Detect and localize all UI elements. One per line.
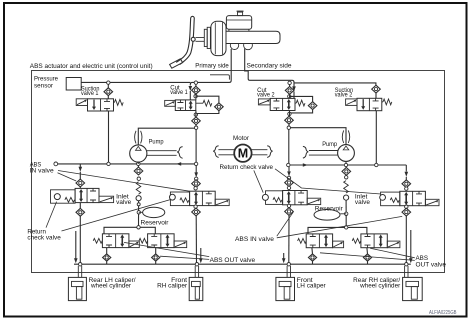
cut valve 2 spring [295,102,296,104]
inlet valve 1R return check ball [262,194,268,200]
cut valve 2 outlet link [288,124,290,126]
pressure sensor wire [81,81,190,83]
primary side label bracket [210,75,229,80]
ABS IN valve right leader 2 [277,216,402,237]
cut valve 2 supply arrow [293,84,295,90]
cut valve 1 bypass check valve [215,103,224,111]
outlet header left return drop [75,231,77,259]
svg-text:ABS OUT valve: ABS OUT valve [210,257,256,264]
wheel line arrow 3 [283,253,285,259]
outlet valve 2 solenoid [174,241,187,248]
outlet valve 1 solenoid [129,241,139,248]
svg-text:ABS IN valve: ABS IN valve [235,236,275,243]
cut valve 2 body [270,98,295,110]
brake fluid reservoir tank [226,16,251,30]
outlet valve 2R body [361,234,387,248]
cut valve 1 outlet node [194,126,197,129]
wheel line node 3 [287,263,290,266]
outlet valve 2 spring [139,238,148,243]
suction valve 1 spring [113,101,116,103]
pushrod pivot pin [191,37,195,41]
pedal pushrod [196,37,205,41]
svg-text:IN valve: IN valve [30,168,55,175]
cut valve 2 bypass check valve [308,102,317,110]
cut valve 1 check valve lower [192,117,201,125]
outlet header reservoir node [137,226,140,229]
inlet valve 2R return housing [381,192,400,206]
reservoir 2 capsule [314,210,340,221]
ABS actuator unit box [32,71,445,273]
outlet header right reservoir node [345,226,348,229]
outlet header left [104,227,155,234]
svg-text:valve: valve [116,199,132,206]
cut valve 2 check valve upper [285,87,294,95]
motor shaft left break [213,146,218,158]
ABS IN valve right leader 1 [277,212,294,236]
front RH caliper [189,277,203,300]
inlet valve 1R body [283,191,308,205]
cut valve 1 body [175,100,196,111]
svg-text:Primary side: Primary side [195,62,229,69]
cut valve 1 solenoid [165,100,176,106]
caliper pipe 2 [195,266,198,278]
outlet valve 1R spring [298,239,307,244]
inlet valve 2R feed arrow [405,165,407,172]
outlet valve 1 check link [106,248,108,254]
outlet header right [308,227,367,234]
svg-text:valve: valve [355,199,371,206]
svg-text:valve 1: valve 1 [81,90,99,97]
inlet valve 2R spring [390,198,399,203]
outlet valve 1R check valve [308,254,316,261]
inlet valve 2R node upper [405,187,408,190]
suction valve 2 spring [382,101,383,103]
outlet valve 2R check link [366,248,369,254]
secondary pipe from master cylinder [245,49,294,85]
primary line suction node [107,162,110,165]
cut valve 2 bypass line [289,96,312,113]
pump 2 suction link [345,161,347,163]
return check valve left leader 2 [62,200,171,231]
inlet valve 2R feed link [405,177,407,180]
cut valve 1 supply link [189,91,191,100]
cut valve 1 node upper [194,81,197,84]
primary line chain node [194,162,197,165]
cut valve 2 outlet node [287,126,290,129]
suction valve 2 body [357,98,382,110]
svg-text:Secondary side: Secondary side [247,62,293,69]
reservoir 1 link [139,211,143,213]
inlet valve 2 node upper [194,187,197,190]
cut valve 1 node mid [194,95,197,98]
pressure sensor box [66,78,81,91]
inlet valve 1 feed arrow [79,164,81,167]
reservoir 1 check ball [136,196,141,201]
reservoir 2 node [345,212,348,215]
cut valve 2 solenoid [258,99,270,105]
suction valve 1 node [107,81,110,84]
cut valve 2 check link upper [289,84,291,86]
pump 2 outlet line [290,128,346,145]
pump 1 suction check valve [134,167,143,175]
brake booster body [211,21,226,55]
primary distribution line [56,163,196,165]
inlet valve 1R return housing [266,191,283,205]
return check valve left leader 1 [46,202,57,228]
inlet valve 1 check link [79,187,81,189]
brake pedal pad [170,59,183,68]
inlet valve 2R outlet line [405,216,407,264]
pump 1 triangle [136,146,142,150]
caliper pipe 1 [78,266,81,278]
wheel line node 1 [79,263,82,266]
inlet valve 1R chain arrow [288,167,290,172]
motor shaft right [252,150,268,155]
outlet valve 2 check link [155,248,157,254]
pump 1 suction node [137,177,140,180]
reservoir 1 line [138,201,140,226]
svg-text:M: M [238,147,248,161]
outlet valve 2 check valve [152,254,160,261]
pump 2 shaft break [303,146,308,158]
svg-text:Motor: Motor [233,135,249,142]
inlet valve 1 spring [65,197,75,202]
cut valve 1 link mid [195,94,197,100]
ABS OUT valve left leader 2 [160,256,209,259]
cut valve 1 check link lower [195,111,197,118]
cut valve 1 bypass line [196,96,219,113]
ABS OUT valve right leader 1 [370,248,415,258]
reservoir 2 line [345,200,347,226]
inlet valve 1R feed node [287,176,290,179]
inlet valve 2R check valve lower [402,208,411,216]
master cylinder port 1 [230,41,238,49]
inlet valve 2R check valve upper [402,180,411,188]
inlet valve 1R check valve lower [285,208,294,216]
outlet valve 2R check valve [363,254,371,261]
cut valve 2 node upper [288,81,291,84]
inlet valve 1R node upper [287,186,290,189]
suction valve 1 check link [107,84,109,87]
wheel cylinder line [74,263,411,265]
secondary line suction node [375,163,378,166]
motor circle [234,145,251,162]
cut valve 2 check link lower [289,111,291,117]
cut valve 1 check valve upper [192,86,201,94]
inlet valve 1 check valve lower [76,208,85,216]
inlet valve 1 return check ball [54,194,60,200]
svg-text:Pump: Pump [149,138,164,145]
reservoir 1 capsule [143,207,165,217]
suction valve 1 inlet link [107,96,109,99]
outlet valve 2R solenoid [387,241,400,248]
inlet valve 2 return housing [170,192,189,206]
inlet valve 1R outlet line [288,215,290,264]
secondary line pump node [344,163,347,166]
cut valve 2 node lower [288,112,291,115]
booster flange small [204,29,207,46]
inlet valve 1 check valve upper [76,179,85,187]
reservoir 1 node [137,211,140,214]
caliper pipe 3 [287,266,290,278]
inlet valve 1 link lower [79,203,81,209]
svg-text:wheel cylinder: wheel cylinder [359,282,400,289]
inlet valve 2 return check ball [170,194,176,200]
pump 1 suction link [137,162,139,164]
svg-text:valve 1: valve 1 [170,89,188,96]
suction valve 1 solenoid [76,99,87,106]
master cylinder port 2 [244,41,253,50]
cut valve 2 supply link [293,91,295,98]
cut valve 1 supply arrow [189,86,193,91]
wheel line node 4 [405,263,408,266]
outlet header right return arrow [409,258,413,263]
secondary line flow arrow [303,163,308,167]
inlet valve 1 body [75,188,99,202]
reservoir 2 check ball [344,195,349,200]
primary pipe from master cylinder [190,49,231,86]
svg-text:OUT valve: OUT valve [416,262,447,269]
master cylinder body [226,31,280,43]
return check valve right leader 1 [254,170,263,192]
svg-text:Reservoir: Reservoir [315,206,343,213]
motor shaft left [218,150,234,155]
inlet valve 2 feed node [195,177,198,180]
secondary line chain node [287,163,290,166]
suction valve 2 feed corner [374,83,376,85]
inlet valve 2 check valve upper [192,180,201,188]
reservoir 2 link [340,213,346,215]
svg-text:valve 2: valve 2 [257,92,275,99]
svg-text:Return check valve: Return check valve [220,164,274,171]
svg-text:sensor: sensor [34,83,53,90]
wheel line arrow 2 [200,248,202,259]
outlet valve 1R body [306,234,332,248]
svg-text:ALFIA0225GB: ALFIA0225GB [429,310,457,316]
inlet valve 2 outlet line [195,216,197,264]
inlet valve 2 node lower [194,205,197,208]
ABS IN valve left leader 1 [58,173,77,181]
inlet valve 1 feed link [79,172,81,179]
suction valve 1 check valve [104,88,113,96]
inlet valve 2R solenoid [425,199,439,205]
pump 1 circle [130,145,147,162]
inlet valve 1R spring [273,198,282,203]
inlet valve 2R body [400,191,426,205]
motor shaft right break [267,146,272,158]
inlet valve 2R return check ball [380,195,386,201]
pump 1 drive shaft [147,151,177,156]
suction valve 2 outlet line [375,111,377,165]
booster flange large [207,27,210,48]
brake pedal arm [176,16,194,64]
cut valve 1 chain to line [195,129,197,162]
svg-text:ABS actuator and electric unit: ABS actuator and electric unit (control … [30,63,153,70]
outlet valve 1R check link [311,248,314,254]
inlet valve 1R check valve upper [285,179,294,187]
svg-text:wheel cylinder: wheel cylinder [90,282,131,289]
cut valve 1 spring [196,102,203,104]
cut valve 1 node lower [194,113,197,116]
svg-text:check valve: check valve [27,235,61,242]
rear LH caliper [68,277,86,300]
reservoir 1 mid node [137,203,140,206]
inlet valve 2 check valve lower [192,208,201,216]
suction valve 2 check valve [372,85,381,93]
secondary distribution line [288,164,406,166]
cut valve 1 check link upper [195,84,197,86]
pump 2 drive shaft [309,151,338,156]
primary line end cap [54,162,58,166]
secondary manifold [294,82,374,84]
svg-text:Pressure: Pressure [34,76,58,83]
suction valve 1 outlet line [108,111,110,164]
pump 2 triangle [343,146,349,150]
pump 2 pulsation marks [342,130,349,143]
inlet valve 2 solenoid [215,199,229,205]
cut valve 2 node mid [288,95,291,98]
outlet valve 2R spring [352,239,361,244]
suction valve 2 check link [375,93,377,98]
reservoir cap [238,12,243,16]
inlet valve 2 feed arrow [195,166,197,173]
outlet valve 1R solenoid [333,241,344,248]
outlet valve 2 body [148,234,175,248]
inlet valve 1 solenoid [99,196,114,202]
suction valve 2 solenoid [346,99,357,106]
ABS IN valve left leader 2 [58,171,189,192]
pump 2 suction node [345,176,348,179]
inlet valve 2R node lower [405,205,408,208]
reservoir 2 spring [344,181,349,193]
wheel line node 2 [195,263,198,266]
ABS OUT valve right leader 2 [320,253,415,261]
inlet valve 2 body [190,191,216,205]
inlet valve 1 outlet line [79,216,81,264]
suction valve 1 body [88,99,114,111]
cut valve 2 chain to line [288,129,290,163]
pump 2 circle [338,145,355,162]
cut valve 2 check valve lower [285,116,294,124]
front LH caliper [276,277,295,300]
outlet valve 1 body [102,234,128,248]
pump 2 suction check valve [342,168,351,176]
outlet valve 1 check valve [103,254,111,261]
return check valve right leader 2 [275,169,381,194]
svg-text:RH caliper: RH caliper [157,282,187,289]
inlet valve 1R node lower [287,204,290,207]
pump 1 shaft break [177,147,182,159]
ABS OUT valve left leader 1 [124,242,209,256]
primary line flow arrow [176,162,181,166]
inlet valve 2 spring [180,198,189,203]
caliper pipe 4 [405,266,408,278]
pump 1 pulsation marks [135,131,142,144]
cut valve 1 outlet link [195,125,197,126]
rear RH caliper [403,277,423,300]
outlet header right drop [410,230,412,259]
inlet valve 1R solenoid [307,198,321,204]
svg-text:Pump: Pump [322,141,337,148]
svg-text:valve 2: valve 2 [335,92,353,99]
svg-text:LH caliper: LH caliper [297,282,326,289]
reservoir 1 spring [136,182,141,194]
pump 1 outlet line [138,128,194,145]
svg-text:Reservoir: Reservoir [141,219,169,226]
cut valve 2 link mid [289,94,291,98]
primary line pump node [137,162,140,165]
inlet valve 1 return housing [51,190,76,203]
reservoir tank connectors [229,29,249,31]
outlet valve 1 spring [93,238,102,243]
